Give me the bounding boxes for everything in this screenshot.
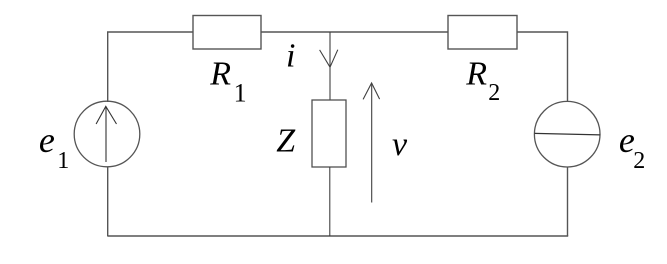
wire top middle (R1 right to R2 left, through node above Z) bbox=[261, 31, 448, 33]
wire top left (node from e1 top to R1 left) bbox=[108, 32, 193, 102]
svg-text:e: e bbox=[39, 120, 55, 160]
svg-text:1: 1 bbox=[234, 78, 247, 107]
label e2 bbox=[619, 120, 645, 174]
wire top right (R2 right to e2 top) bbox=[517, 32, 568, 102]
wire right bottom (e2 bottom to bottom rail) bbox=[567, 167, 569, 236]
svg-text:v: v bbox=[392, 126, 408, 163]
label R2 bbox=[465, 55, 500, 106]
source e2 bbox=[534, 101, 600, 167]
label e1 bbox=[39, 120, 69, 174]
svg-text:2: 2 bbox=[633, 148, 645, 174]
resistor R1 bbox=[193, 16, 261, 50]
voltage arrow v bbox=[363, 83, 380, 203]
svg-text:Z: Z bbox=[276, 123, 296, 160]
svg-text:2: 2 bbox=[488, 80, 500, 106]
wire middle top (node to Z top) with current arrow i bbox=[320, 32, 338, 100]
resistor R2 bbox=[448, 16, 517, 50]
svg-text:R: R bbox=[465, 55, 487, 92]
source e1 bbox=[74, 101, 140, 167]
impedance Z bbox=[312, 100, 346, 167]
svg-text:1: 1 bbox=[57, 148, 69, 174]
wire middle bottom (Z bottom to bottom rail) bbox=[329, 167, 331, 236]
label v bbox=[392, 126, 408, 163]
svg-text:R: R bbox=[209, 55, 231, 92]
wire bottom rail bbox=[107, 235, 568, 237]
wire left bottom (e1 bottom to bottom rail) bbox=[107, 167, 109, 237]
label Z bbox=[276, 123, 296, 160]
label i bbox=[286, 38, 295, 75]
svg-text:i: i bbox=[286, 38, 295, 75]
label R1 bbox=[209, 55, 246, 107]
